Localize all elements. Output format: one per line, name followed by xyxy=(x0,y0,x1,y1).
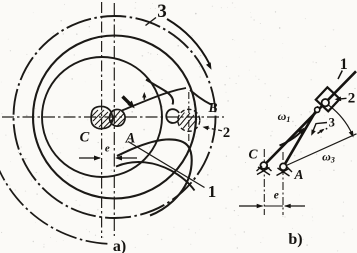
svg-text:3: 3 xyxy=(329,116,335,130)
arrow of label 2 (fig b) xyxy=(335,97,347,102)
small tau arrow with dot xyxy=(318,128,328,134)
link 3 (A to slider pin) xyxy=(283,107,318,167)
bent leader of label 3 (fig b) xyxy=(311,123,327,136)
hub A (hatched) xyxy=(109,109,125,126)
mesh deviation stroke at B xyxy=(190,90,211,105)
lower pin on link 3 xyxy=(315,107,320,112)
link 1 (C to slider, extended) xyxy=(264,71,356,165)
rotation direction arrow (top right) xyxy=(167,19,212,70)
pivot C (fig b) with ground hatch xyxy=(257,162,272,175)
svg-text:3: 3 xyxy=(157,1,167,22)
crank radius thin line A to arc xyxy=(284,134,357,167)
hub C (hatched) xyxy=(91,106,113,128)
vertical centerline through A xyxy=(113,3,115,236)
svg-text:b): b) xyxy=(288,231,302,248)
leader line of label 1 xyxy=(128,142,205,188)
pitch circle of ring gear 3 (dash-dot) xyxy=(14,16,216,218)
horizontal centerline xyxy=(2,116,224,118)
svg-text:ω3: ω3 xyxy=(322,150,335,165)
link 1 second lower outline xyxy=(116,162,195,190)
outer dash-dot arc (bottom-left, scan offset of pitch circle) xyxy=(0,160,110,244)
pivot A (fig b) with ground hatch xyxy=(277,163,293,176)
slider block 2 xyxy=(316,87,340,111)
ring gear circle xyxy=(33,36,196,199)
svg-text:2: 2 xyxy=(348,91,356,107)
svg-text:A: A xyxy=(125,131,136,147)
svg-text:e: e xyxy=(274,190,279,202)
svg-text:A: A xyxy=(293,167,303,182)
svg-text:ω1: ω1 xyxy=(278,109,291,124)
leader line of label 3 xyxy=(146,18,157,26)
link 1 upper outline deviating from wheel circle toward B xyxy=(146,80,173,105)
slider pin at B xyxy=(322,99,329,106)
svg-text:e: e xyxy=(105,143,110,155)
dashed leader of label 2 xyxy=(203,126,223,131)
vertical dash line through pivot A xyxy=(282,152,284,215)
joint B small circle xyxy=(166,109,179,123)
eccentricity dimension e (fig b) xyxy=(239,204,305,209)
wheel circle centered at C xyxy=(42,57,162,177)
omega1 rotation arrow xyxy=(280,128,305,146)
svg-text:C: C xyxy=(248,147,258,162)
link 1 lower wavy outline xyxy=(117,139,192,215)
small up arrow near hub xyxy=(142,92,146,100)
svg-text:B: B xyxy=(207,100,217,115)
omega3 angle arc xyxy=(327,104,354,138)
heavy arrow at hub A xyxy=(123,97,135,109)
svg-text:1: 1 xyxy=(340,56,348,73)
svg-text:C: C xyxy=(80,130,90,146)
leader of label 1 (fig b) xyxy=(338,71,342,80)
svg-text:2: 2 xyxy=(223,125,230,141)
vertical centerline at B xyxy=(188,92,190,141)
vertical centerline through C xyxy=(101,2,103,238)
wheel 2 dashed circle at B (hatched) xyxy=(178,109,200,131)
vertical dash line through pivot C xyxy=(263,149,265,215)
eccentricity dimension e (fig a) xyxy=(79,156,137,161)
spoke from hub A to junction near B xyxy=(122,88,186,111)
svg-text:1: 1 xyxy=(208,182,217,201)
svg-text:a): a) xyxy=(113,238,126,253)
